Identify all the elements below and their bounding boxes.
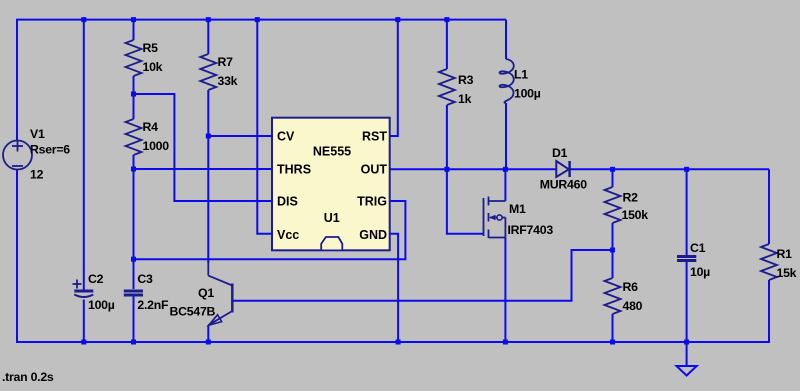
wire C1 branch (686, 169, 688, 255)
wire R3 leads (446, 20, 448, 69)
wire bottom rail (16, 341, 770, 343)
wire R7 top lead (207, 20, 209, 54)
ground (677, 366, 697, 376)
svg-text:R7: R7 (218, 55, 234, 69)
wire RST (390, 20, 398, 136)
resistor R6 (605, 278, 621, 314)
node bottom R6 (610, 340, 615, 345)
svg-text:12: 12 (30, 168, 44, 182)
svg-text:10k: 10k (143, 60, 163, 74)
svg-text:33k: 33k (218, 74, 238, 88)
svg-text:R4: R4 (143, 120, 159, 134)
transistor Q1 (208, 261, 232, 325)
wire R5 top lead (133, 20, 135, 40)
wire M1 drain (504, 169, 506, 201)
wire Vcc branch (257, 20, 272, 234)
svg-text:MUR460: MUR460 (540, 177, 587, 191)
wire DIS tap (134, 94, 273, 201)
node bottom Q1 (206, 340, 211, 345)
node D1 R2 (610, 167, 615, 172)
node OUT R3 (444, 167, 449, 172)
svg-text:NE555: NE555 (313, 144, 351, 158)
svg-text:Q1: Q1 (198, 286, 214, 300)
wire Q1 base loop (232, 250, 612, 301)
resistor R3 (439, 69, 455, 105)
svg-text:R2: R2 (623, 191, 639, 205)
svg-text:L1: L1 (514, 68, 528, 82)
wire THRS (134, 168, 273, 170)
wire left rail lower (16, 170, 18, 343)
svg-text:C2: C2 (88, 272, 104, 286)
svg-text:15k: 15k (777, 266, 797, 280)
svg-text:GND: GND (359, 228, 387, 242)
svg-text:OUT: OUT (361, 162, 388, 176)
svg-text:150k: 150k (622, 208, 649, 222)
svg-text:1000: 1000 (143, 139, 170, 153)
svg-text:IRF7403: IRF7403 (508, 223, 554, 237)
wire top rail (17, 20, 506, 141)
wire C3 bottom (133, 296, 135, 342)
node bottom GND555 (396, 340, 401, 345)
wire OUT row (390, 168, 556, 170)
node top rail RST (395, 17, 400, 22)
svg-text:2.2nF: 2.2nF (137, 298, 169, 312)
svg-text:100µ: 100µ (514, 87, 541, 101)
node R5-R4 DIS (131, 92, 136, 97)
wire R6 leads (612, 250, 614, 278)
svg-text:Vcc: Vcc (277, 228, 299, 242)
wire R5-R4 middle (133, 76, 135, 119)
wire L1 leads (505, 20, 507, 59)
wire Q1 emitter lead (207, 325, 209, 342)
node C1 top (684, 167, 689, 172)
node R2 R6 base (610, 248, 615, 253)
svg-text:480: 480 (623, 299, 643, 313)
node bottom C3 (131, 340, 136, 345)
svg-text:10µ: 10µ (690, 265, 710, 279)
capacitor C2 plates (74, 290, 93, 293)
node TRIG C3 (131, 257, 136, 262)
svg-text:RST: RST (362, 129, 387, 143)
svg-text:R5: R5 (143, 41, 159, 55)
resistor R2 (605, 187, 621, 223)
node bottom M1 (503, 340, 508, 345)
resistor R1 (761, 244, 777, 280)
svg-text:R3: R3 (458, 73, 474, 87)
svg-text:DIS: DIS (277, 194, 298, 208)
wire ground tap (686, 342, 688, 366)
transistor M1 (484, 197, 506, 239)
inductor L1 (500, 59, 514, 103)
svg-text:U1: U1 (324, 211, 340, 225)
svg-text:Rser=6: Rser=6 (30, 143, 70, 157)
node top rail Vcc (255, 17, 260, 22)
wire TRIG loop (134, 201, 406, 259)
op-amp U1 NE555 body (272, 118, 390, 251)
node CV R7 (206, 134, 211, 139)
svg-text:V1: V1 (30, 127, 45, 141)
node top rail R3 (444, 17, 449, 22)
svg-text:.tran 0.2s: .tran 0.2s (2, 370, 54, 384)
wire 555 GND branch (390, 234, 398, 342)
resistor R5 (126, 40, 142, 76)
svg-text:THRS: THRS (277, 162, 311, 176)
wire C2 branch (83, 20, 85, 290)
svg-text:D1: D1 (552, 146, 568, 160)
node top rail R7 (206, 17, 211, 22)
svg-text:CV: CV (277, 129, 295, 143)
node top rail R5 (131, 17, 136, 22)
node bottom C2 (81, 340, 86, 345)
svg-text:R1: R1 (777, 247, 793, 261)
capacitor C3 plates (124, 290, 143, 293)
svg-text:C1: C1 (690, 241, 706, 255)
svg-text:R6: R6 (623, 280, 639, 294)
svg-text:BC547B: BC547B (170, 304, 216, 318)
svg-text:C3: C3 (137, 272, 153, 286)
wire R2 leads (612, 169, 614, 187)
svg-text:TRIG: TRIG (357, 194, 387, 208)
wire CV (208, 135, 272, 137)
node OUT L1 M1 (503, 167, 508, 172)
diode D1 (556, 161, 569, 177)
wire R4 bottom to C3 (133, 155, 135, 289)
voltage source V1 (3, 141, 32, 170)
wire M1 source (504, 238, 506, 343)
node top rail C2 (81, 17, 86, 22)
capacitor C2 plus sign (73, 280, 82, 289)
wire M1 gate branch (447, 169, 484, 234)
node bottom C1 ground (684, 340, 689, 345)
capacitor C1 plates (677, 255, 696, 258)
resistor R4 (126, 119, 142, 155)
node THRS (131, 167, 136, 172)
svg-text:1k: 1k (458, 92, 472, 106)
wire R1 leads (768, 169, 770, 244)
resistor R7 (200, 54, 216, 90)
wire R7 bottom through CV node to Q1 collector (207, 90, 209, 263)
svg-text:M1: M1 (509, 202, 526, 216)
svg-text:100µ: 100µ (88, 298, 115, 312)
